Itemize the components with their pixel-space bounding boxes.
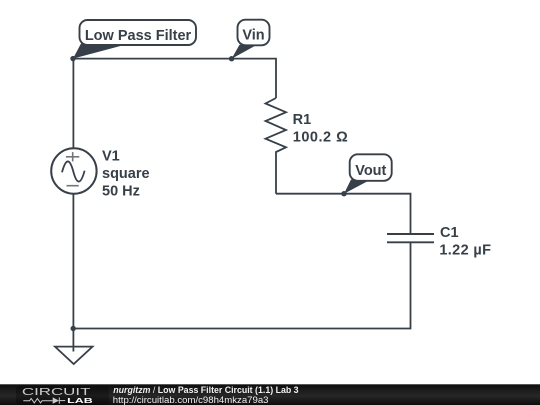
svg-text:1.22 µF: 1.22 µF [439,242,491,258]
svg-text:R1: R1 [293,112,312,128]
svg-text:C1: C1 [440,225,459,241]
svg-text:nurgitzm / Low Pass Filter Cir: nurgitzm / Low Pass Filter Circuit (1.1)… [113,385,298,395]
svg-text:50 Hz: 50 Hz [102,184,140,200]
svg-text:Low Pass Filter: Low Pass Filter [85,28,192,44]
svg-text:LAB: LAB [67,396,93,405]
svg-text:http://circuitlab.com/c98h4mkz: http://circuitlab.com/c98h4mkza79a3 [113,395,269,405]
svg-text:square: square [102,166,150,182]
svg-text:Vout: Vout [355,163,386,179]
svg-text:100.2 Ω: 100.2 Ω [293,130,348,146]
svg-text:V1: V1 [102,149,120,165]
svg-text:Vin: Vin [242,28,264,44]
